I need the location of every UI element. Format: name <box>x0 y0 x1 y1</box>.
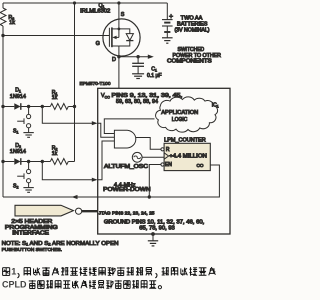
svg-text:S1: S1 <box>13 128 18 134</box>
node EN riser to power-down junction <box>148 195 151 198</box>
label power-down <box>103 187 151 193</box>
svg-text:INTERFACE: INTERFACE <box>12 231 49 237</box>
CPLD IC1 EPM570-T100 box <box>80 81 231 234</box>
ground below C1 <box>132 74 144 79</box>
oscillator ALTUFM_OSC <box>104 152 164 169</box>
wire cathode to R1 <box>29 106 51 108</box>
svg-text:C1: C1 <box>151 67 157 73</box>
resistor R1 1k <box>50 90 74 110</box>
ground below S2 <box>23 188 33 193</box>
node D1 anode on rail <box>1 105 4 108</box>
svg-text:1k: 1k <box>9 20 15 26</box>
label 4.4-MHz clock <box>114 182 136 188</box>
svg-text:÷4.4 MILLION: ÷4.4 MILLION <box>169 154 207 160</box>
wire battery riser <box>166 3 168 20</box>
svg-text:IRLML6302: IRLML6302 <box>80 8 110 14</box>
svg-text:IC1: IC1 <box>212 103 219 109</box>
svg-text:ALTUFM_OSC: ALTUFM_OSC <box>104 164 148 170</box>
svg-text:TWO AA: TWO AA <box>181 16 203 22</box>
wire counter EN to power-down net <box>149 165 161 198</box>
node D2 anode on rail <box>1 160 4 163</box>
switch S1 pushbutton <box>13 107 31 135</box>
resistor R2 1k <box>50 145 74 164</box>
ground below battery <box>162 38 173 43</box>
svg-text:S: S <box>121 12 125 18</box>
svg-text:1N914: 1N914 <box>10 94 26 100</box>
wire signal 2 to CPLD <box>42 162 97 182</box>
label JTAG pins <box>99 210 155 216</box>
label battery <box>175 16 210 34</box>
label ground pins <box>104 220 204 232</box>
wire left gate-net rail <box>2 26 4 197</box>
wire Q1 drain down to CPLD Vcc <box>118 56 120 88</box>
wire gate output to counter R <box>136 138 162 150</box>
node signal 1 tap <box>41 105 44 108</box>
caption figure 1 (chinese) <box>2 267 215 290</box>
svg-text:PUSHBUTTON SWITCHES.: PUSHBUTTON SWITCHES. <box>2 247 62 253</box>
LPM_COUNTER divide-by-4.4-million <box>161 138 210 171</box>
application logic cloud <box>156 97 218 132</box>
transistor Q1 IRLML6302 <box>80 3 140 63</box>
switch S2 pushbutton <box>13 162 31 190</box>
svg-text:1k: 1k <box>52 151 58 157</box>
svg-text:CC: CC <box>105 95 111 99</box>
wire signal 1 to CPLD <box>42 107 97 126</box>
svg-text:LPM_COUNTER: LPM_COUNTER <box>164 138 206 144</box>
svg-text:COMPONENTS: COMPONENTS <box>167 58 213 64</box>
svg-text:POWER-DOWN: POWER-DOWN <box>103 187 151 193</box>
ground below S1 <box>23 133 33 138</box>
battery B1 two AA cells <box>162 14 173 38</box>
svg-text:D1: D1 <box>15 88 21 94</box>
connector 2x5 header programming interface <box>5 205 82 236</box>
svg-text:S2: S2 <box>13 184 18 190</box>
svg-text:65, 78, 90, 93: 65, 78, 90, 93 <box>139 226 175 232</box>
wire CO feedback loop <box>98 165 220 197</box>
svg-text:(3V NOMINAL): (3V NOMINAL) <box>175 28 210 34</box>
svg-text:59, 63, 80, 88, 94: 59, 63, 80, 88, 94 <box>116 99 158 105</box>
node R1 to pullup rail <box>73 105 76 108</box>
wire signal 1 inside to gate <box>98 123 115 137</box>
svg-text:+: + <box>169 14 173 21</box>
svg-text:D: D <box>112 57 116 63</box>
node gate wire junction <box>1 34 4 37</box>
node D1 cathode / S1 junction <box>27 105 30 108</box>
svg-text:0.1 µF: 0.1 µF <box>147 73 162 79</box>
label switched power <box>167 47 221 64</box>
node CPLD ground pin <box>151 232 155 236</box>
note text <box>2 241 119 253</box>
ground CPLD <box>148 234 158 246</box>
svg-text:EPM570-T100: EPM570-T100 <box>80 81 111 87</box>
svg-text:CPLD: CPLD <box>2 280 27 290</box>
capacitor C1 0.1uF <box>132 57 161 79</box>
wire top battery rail <box>3 2 167 4</box>
node top rail to Q1 source junction <box>117 1 120 4</box>
and gate U1 <box>114 130 135 148</box>
wire cloud to gate input <box>104 119 154 134</box>
node drain junction <box>117 55 120 58</box>
svg-text:LOGIC: LOGIC <box>172 117 188 123</box>
resistor R3 1k <box>0 3 15 26</box>
wire switched power line <box>119 55 154 59</box>
node C1 tap <box>136 55 139 58</box>
svg-text:R: R <box>166 147 170 153</box>
wire signal 2 inside to gate <box>98 141 115 180</box>
svg-text:1N914: 1N914 <box>10 149 26 155</box>
wire cathode to R2 <box>29 161 51 163</box>
svg-text:EN: EN <box>165 162 172 168</box>
CAPSTART <box>3 267 10 269</box>
svg-text:CO: CO <box>197 163 204 168</box>
wire pullup rail (battery +) <box>74 3 76 162</box>
svg-text:G: G <box>96 41 100 47</box>
wire MOSFET gate line <box>3 35 109 37</box>
diode D1 1N914 <box>3 88 29 110</box>
svg-text:JTAG PINS 22, 23, 24, 25: JTAG PINS 22, 23, 24, 25 <box>99 210 155 216</box>
svg-text:APPLICATION: APPLICATION <box>161 110 198 116</box>
wire JTAG bus <box>82 210 98 212</box>
node top rail to pullup rail junction <box>73 1 76 4</box>
node signal 2 tap <box>41 160 44 163</box>
wire power-down from CPLD to gate net <box>3 195 98 199</box>
label Vcc pins <box>101 93 182 105</box>
svg-text:1: 1 <box>11 267 16 277</box>
svg-text:1k: 1k <box>52 95 58 101</box>
wire Q1 source stub <box>118 3 120 29</box>
svg-text:BATTERIES: BATTERIES <box>177 22 208 28</box>
svg-text:NOTE: S₁ AND S₂ ARE NORMALLY O: NOTE: S₁ AND S₂ ARE NORMALLY OPEN <box>2 241 119 247</box>
node D2 cathode / S2 junction <box>27 160 30 163</box>
diode D2 1N914 <box>3 143 29 165</box>
label IC1 <box>212 103 219 109</box>
